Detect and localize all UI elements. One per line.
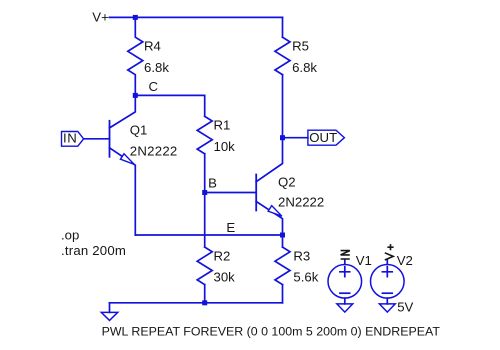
svg-text:PWL REPEAT FOREVER (0 0 100m 5: PWL REPEAT FOREVER (0 0 100m 5 200m 0) E… [102, 325, 441, 339]
ground symbol bottom left [101, 312, 117, 320]
svg-text:6.8k: 6.8k [144, 60, 169, 75]
junction top rail at R4 [133, 15, 138, 20]
transistor Q1 collector [110, 95, 136, 128]
svg-text:R5: R5 [292, 39, 309, 54]
wire R5 top lead from rail [282, 17, 284, 37]
ground symbol under V1 [337, 304, 353, 312]
voltage source V1 circle [328, 265, 362, 299]
voltage source V1 minus [340, 292, 350, 294]
svg-text:C: C [149, 79, 159, 94]
svg-text:R2: R2 [214, 249, 231, 264]
svg-text:OUT: OUT [309, 130, 337, 145]
wire OUT node to port [283, 137, 308, 139]
port IN outline [62, 132, 84, 147]
wire node E horizontal [135, 234, 282, 236]
junction node OUT [280, 135, 285, 140]
svg-text:B: B [208, 175, 217, 190]
svg-text:Q1: Q1 [130, 123, 148, 138]
wire node C to R1 [135, 95, 204, 116]
junction node C [133, 93, 138, 98]
V1 waveform glyph (Z with underline) [341, 251, 350, 259]
wire node E down to R3 [282, 235, 284, 247]
svg-text:.tran 200m: .tran 200m [61, 243, 126, 258]
wire ground stub bottom left [109, 303, 111, 313]
svg-text:V1: V1 [356, 253, 372, 268]
transistor Q2 base bar [255, 175, 257, 211]
transistor Q1 emitter arrow [120, 154, 134, 165]
resistor R1 [197, 116, 212, 154]
voltage source V2 circle [371, 265, 405, 299]
transistor Q2 collector [256, 138, 282, 182]
wire node B down to R2 [204, 193, 206, 248]
svg-text:30k: 30k [214, 269, 236, 284]
voltage source V2 plus [382, 267, 392, 277]
wire V1 top stub [344, 260, 346, 265]
V2 polarity glyph (plus over chevron) [385, 244, 394, 260]
wire top rail V+ [109, 16, 282, 18]
svg-text:2N2222: 2N2222 [278, 194, 324, 209]
svg-text:Q2: Q2 [278, 174, 296, 189]
junction bottom rail at R2 [202, 300, 207, 305]
svg-text:.op: .op [61, 227, 79, 242]
svg-text:2N2222: 2N2222 [130, 143, 178, 158]
svg-text:R4: R4 [144, 39, 161, 54]
junction node B [202, 190, 207, 195]
wire IN port to Q1 base [84, 138, 110, 140]
svg-text:5V: 5V [397, 300, 413, 315]
svg-text:E: E [226, 220, 235, 235]
wire V1 bottom stub [344, 298, 346, 304]
resistor R5 [275, 37, 290, 74]
voltage source V1 plus [340, 267, 350, 277]
wire V2 top stub [386, 260, 388, 264]
transistor Q1 emitter [110, 148, 136, 235]
wire R3 bottom lead [282, 285, 284, 303]
port OUT outline [308, 130, 345, 145]
wire bottom rail [110, 302, 283, 304]
wire node B to Q2 base [205, 192, 257, 194]
wire R5 bottom lead to OUT node [282, 75, 284, 138]
svg-text:IN: IN [63, 130, 77, 145]
transistor Q2 emitter [256, 202, 282, 236]
transistor Q1 base bar [109, 121, 111, 157]
svg-text:10k: 10k [214, 139, 236, 154]
resistor R2 [197, 247, 212, 285]
ground symbol under V2 [379, 304, 395, 312]
svg-text:6.8k: 6.8k [292, 60, 317, 75]
svg-text:5.6k: 5.6k [293, 269, 318, 284]
svg-text:R3: R3 [293, 249, 310, 264]
voltage source V2 minus [382, 292, 392, 294]
svg-text:V2: V2 [397, 253, 413, 268]
resistor R3 [275, 247, 290, 285]
svg-text:R1: R1 [214, 118, 231, 133]
resistor R4 [128, 17, 143, 95]
wire V2 bottom stub [386, 298, 388, 304]
wire R1 bottom lead to node B [204, 154, 206, 193]
svg-text:V+: V+ [92, 10, 109, 25]
wire R2 bottom lead [204, 285, 206, 303]
junction node E [280, 233, 285, 238]
transistor Q2 emitter arrow [268, 206, 282, 217]
